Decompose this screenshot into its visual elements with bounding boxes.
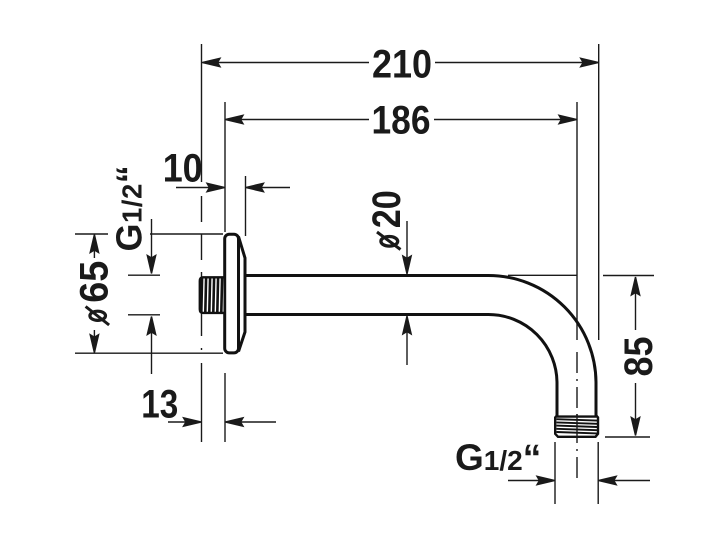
dimension text 85 (rotated) — [617, 337, 661, 377]
pipe top extension to centerline — [508, 274, 577, 276]
dimension line 210 — [202, 58, 599, 66]
dimension line 85 (vertical) — [631, 277, 639, 436]
outlet centerline lower part (over thread) — [576, 414, 578, 438]
extension line 186 right — [576, 102, 578, 340]
dimension text G1/2 bottom — [455, 437, 541, 478]
extension line 210 left — [201, 44, 203, 182]
extension line o65 top — [75, 233, 223, 235]
thread bottom stub line — [128, 314, 160, 316]
o20 pointer arrow up — [403, 316, 411, 365]
svg-text:210: 210 — [372, 43, 432, 87]
svg-text:85: 85 — [617, 337, 661, 377]
dimension text o65 (rotated) — [72, 261, 116, 325]
dimension text 186 — [372, 99, 431, 143]
dimension line 10 (outside arrows) — [176, 183, 290, 191]
svg-text:13: 13 — [141, 383, 178, 427]
dimension text 13 — [141, 383, 178, 427]
G1/2 left pointer arrow up — [147, 317, 155, 375]
outlet thread G1/2 — [555, 416, 598, 438]
G1/2 left pointer arrow down — [147, 219, 155, 274]
outlet centerline (dash-dot) — [576, 352, 578, 480]
svg-text:20: 20 — [365, 190, 409, 228]
extension line 10 right (cone face) — [245, 176, 247, 236]
extension line 210 right — [598, 44, 600, 340]
dimension line o65 (vertical, outside text) — [90, 235, 98, 353]
dimension text 10 — [163, 147, 203, 191]
dimension text o20 (rotated) — [365, 190, 409, 249]
wall line (dashed, left of flange) — [201, 196, 203, 442]
outlet thread extension line left — [554, 442, 556, 504]
extension line o65 bottom — [75, 352, 223, 354]
dimension line 13 (outside arrows) — [168, 418, 276, 426]
extension line 13 right — [224, 373, 226, 442]
wall flange cone — [239, 237, 246, 352]
wall thread G1/2 — [200, 277, 224, 314]
o20 pointer arrow down — [403, 221, 411, 274]
dimension line G1/2 bottom (outside arrows) — [508, 476, 650, 484]
dimension text 210 — [372, 43, 432, 87]
outlet thread extension line right — [597, 442, 599, 504]
wall flange plate — [225, 234, 239, 353]
svg-text:65: 65 — [72, 261, 116, 303]
extension line 186 left — [224, 102, 226, 232]
dimension text G1/2 left (rotated) — [109, 165, 150, 252]
svg-text:10: 10 — [163, 147, 203, 191]
extension line 85 bottom — [605, 436, 650, 438]
svg-text:186: 186 — [372, 99, 431, 143]
dimension line 186 — [225, 115, 577, 123]
shower arm pipe outline — [245, 276, 596, 417]
thread top stub line — [128, 274, 160, 276]
extension line 85 top — [603, 275, 654, 277]
